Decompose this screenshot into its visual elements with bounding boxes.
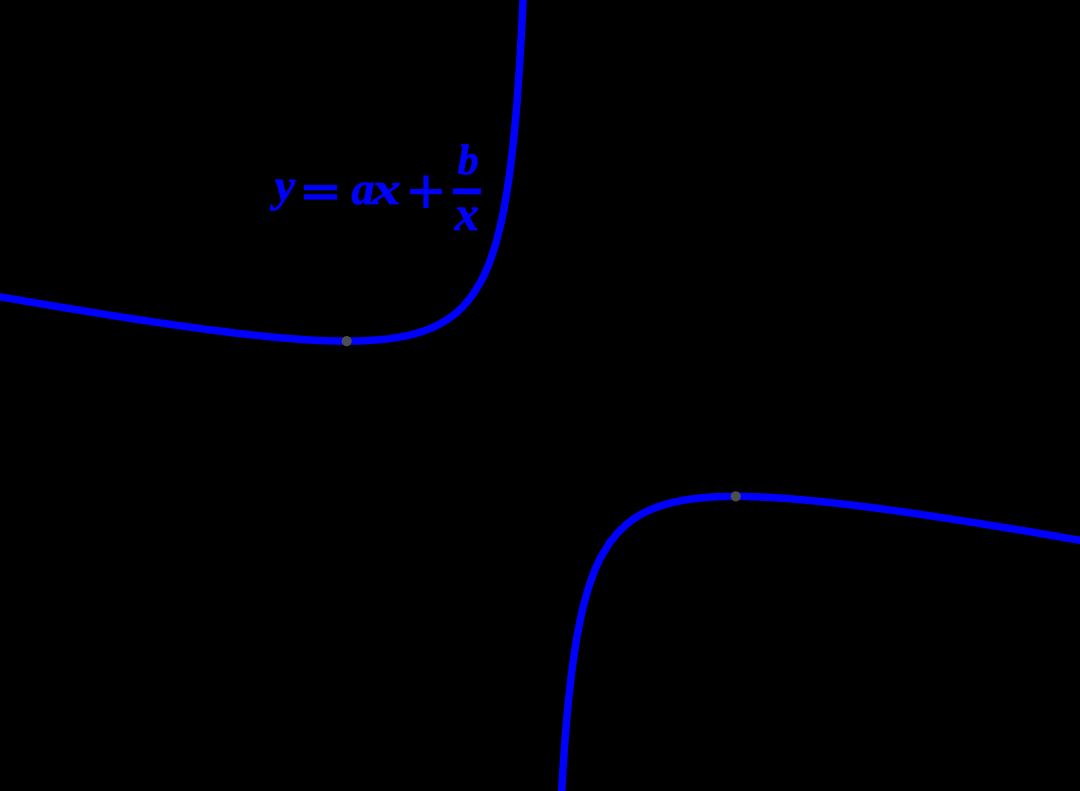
label glyph x bbox=[372, 166, 401, 212]
curve branch left bbox=[0, 0, 524, 341]
label glyph a bbox=[352, 166, 375, 212]
label glyph b (numerator) bbox=[458, 140, 479, 182]
point B (local min of right branch) bbox=[731, 491, 741, 501]
label glyph x (denominator) bbox=[455, 189, 480, 238]
label glyph y bbox=[275, 163, 295, 209]
point A (local max of left branch) bbox=[342, 336, 352, 346]
curve branch right bbox=[561, 496, 1080, 791]
equals sign of label bbox=[304, 185, 337, 190]
fraction bar of label bbox=[453, 188, 481, 194]
plus sign of label bbox=[410, 189, 442, 194]
